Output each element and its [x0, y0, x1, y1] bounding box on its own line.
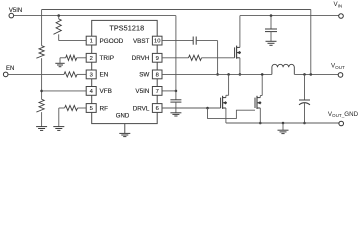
svg-text:VFB: VFB — [100, 88, 112, 95]
svg-text:EN: EN — [6, 66, 14, 72]
svg-text:TRIP: TRIP — [100, 55, 115, 62]
svg-text:V5IN: V5IN — [135, 88, 149, 95]
svg-text:PGOOD: PGOOD — [100, 38, 124, 45]
svg-text:8: 8 — [156, 73, 159, 79]
svg-text:RF: RF — [100, 105, 109, 112]
svg-text:V5IN: V5IN — [9, 8, 22, 14]
svg-text:GND: GND — [116, 113, 130, 120]
svg-text:1: 1 — [90, 39, 93, 45]
svg-text:VBST: VBST — [133, 38, 150, 45]
svg-text:7: 7 — [156, 89, 159, 95]
svg-text:SW: SW — [139, 72, 149, 79]
svg-text:2: 2 — [90, 56, 93, 62]
svg-text:9: 9 — [156, 56, 159, 62]
svg-text:10: 10 — [154, 39, 160, 45]
svg-text:DRVH: DRVH — [132, 55, 150, 62]
svg-text:5: 5 — [90, 106, 93, 112]
svg-text:6: 6 — [156, 106, 159, 112]
svg-text:TPS51218: TPS51218 — [109, 24, 144, 33]
svg-text:3: 3 — [90, 73, 93, 79]
svg-text:EN: EN — [100, 72, 109, 79]
svg-text:DRVL: DRVL — [133, 105, 150, 112]
